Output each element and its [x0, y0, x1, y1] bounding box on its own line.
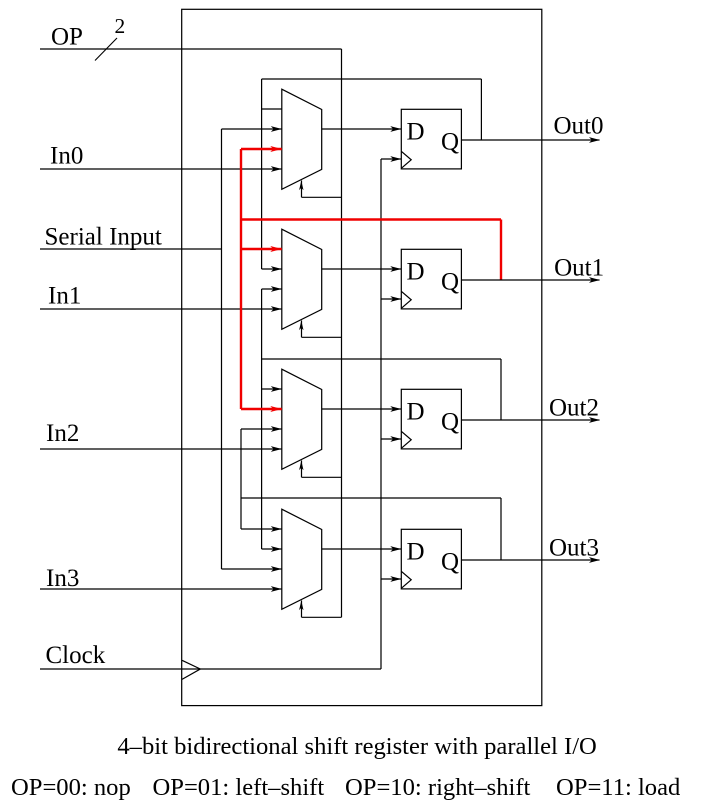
wire Out2 net vertical — [261, 289, 263, 549]
label Q of FF1 — [441, 129, 459, 156]
svg-text:Clock: Clock — [46, 642, 106, 669]
svg-text:OP=11: load: OP=11: load — [556, 774, 680, 801]
mux U2 (4-to-1) — [282, 229, 322, 329]
mux U4 (4-to-1) — [282, 509, 322, 609]
wire clock tap FF3 — [381, 436, 401, 442]
wire Serial Input — [40, 248, 222, 250]
wire mux U3 select — [299, 461, 341, 478]
wire Serial net vertical — [221, 129, 223, 569]
svg-text:Q: Q — [441, 409, 459, 436]
wire In1 input — [40, 306, 282, 312]
wire mux U2 output to D — [322, 266, 402, 272]
svg-text:OP=10: right–shift: OP=10: right–shift — [345, 774, 531, 801]
wire Out1 feedback drop (red) — [500, 220, 502, 281]
svg-text:In1: In1 — [48, 283, 81, 310]
svg-text:D: D — [407, 539, 425, 566]
svg-text:In0: In0 — [50, 143, 83, 170]
wire Out3 feedback drop — [500, 498, 502, 560]
wire OP select bus vertical — [341, 49, 343, 617]
caption OP=11 — [556, 774, 680, 801]
label Q of FF4 — [441, 549, 459, 576]
svg-text:D: D — [407, 119, 425, 146]
label In0 — [50, 143, 83, 170]
caption OP=00 — [11, 774, 131, 801]
wire Out1 feedback horizontal (red) — [241, 218, 501, 220]
label Out1 — [554, 254, 604, 281]
wire OP input — [40, 48, 342, 50]
svg-text:In2: In2 — [46, 420, 79, 447]
caption title — [117, 733, 596, 760]
svg-text:Q: Q — [441, 269, 459, 296]
wire Out0 output — [461, 137, 600, 143]
wire Out2 feedback horizontal — [262, 358, 501, 360]
wire mux U4 output to D — [322, 546, 402, 552]
caption OP=10 — [345, 774, 531, 801]
svg-text:2: 2 — [115, 14, 126, 38]
label D of FF4 — [407, 539, 425, 566]
svg-text:Q: Q — [441, 129, 459, 156]
label D of FF1 — [407, 119, 425, 146]
label OP — [51, 24, 83, 51]
flip-flop FF3 — [401, 389, 461, 449]
wire mux U4 select — [299, 601, 341, 618]
label Out3 — [549, 534, 599, 561]
wire clock tap FF2 — [381, 296, 401, 302]
svg-text:Out3: Out3 — [549, 534, 599, 561]
wire mux U2 select — [299, 321, 341, 338]
wire Out3 output — [461, 557, 600, 563]
wire mux U2 left-shift input stub — [262, 286, 282, 292]
flip-flop FF1 — [401, 109, 461, 169]
wire mux U4 nop input stub — [241, 526, 282, 532]
clock wedge at box edge — [182, 660, 200, 679]
wire Out1 net vertical (red) — [240, 149, 242, 409]
wire clock tap FF4 — [381, 576, 401, 582]
wire mux U1 nop input stub — [262, 108, 282, 110]
wire mux U3 output to D — [322, 406, 402, 412]
svg-text:Q: Q — [441, 549, 459, 576]
wire mux U2 nop input stub (red) — [241, 246, 282, 252]
label D of FF2 — [407, 259, 425, 286]
label Clock — [46, 642, 106, 669]
wire Clock distribution vertical — [380, 159, 382, 669]
wire mux U4 right-shift input stub — [262, 546, 282, 552]
wire mux U1 left-shift input stub (red) — [241, 146, 282, 152]
wire Out3 net vertical — [240, 429, 242, 529]
label In1 — [48, 283, 81, 310]
label Out2 — [549, 394, 599, 421]
label 2 (bus width) — [115, 14, 126, 38]
svg-text:In3: In3 — [46, 565, 79, 592]
label Serial Input — [45, 224, 162, 251]
label In2 — [46, 420, 79, 447]
mux U3 (4-to-1) — [282, 369, 322, 469]
svg-text:OP: OP — [51, 24, 83, 51]
wire In2 input — [40, 446, 282, 452]
wire In3 input — [40, 586, 282, 592]
flip-flop FF2 — [401, 249, 461, 309]
label Out0 — [554, 113, 604, 140]
svg-text:Out2: Out2 — [549, 394, 599, 421]
wire mux U1 right-shift input stub — [222, 126, 282, 132]
svg-text:OP=01: left–shift: OP=01: left–shift — [153, 774, 325, 801]
svg-text:Out1: Out1 — [554, 254, 604, 281]
wire Out3 feedback horizontal — [241, 497, 501, 499]
wire Clock input — [40, 668, 381, 670]
wire mux U3 nop input stub — [262, 386, 282, 392]
wire Out2 feedback drop — [500, 359, 502, 420]
wire Out0 feedback drop — [480, 79, 482, 140]
bus-width slash on OP wire — [95, 38, 117, 61]
wire mux U3 right-shift input stub (red) — [241, 406, 282, 412]
label In3 — [46, 565, 79, 592]
flip-flop FF4 — [401, 529, 461, 589]
wire mux U1 select — [299, 181, 341, 198]
label Q of FF3 — [441, 409, 459, 436]
wire mux U1 output to D — [322, 126, 402, 132]
wire mux U2 right-shift input stub — [262, 266, 282, 272]
wire mux U4 left-shift input stub — [222, 566, 282, 572]
wire mux U3 left-shift input stub — [241, 426, 282, 432]
label Q of FF2 — [441, 269, 459, 296]
mux U1 (4-to-1) — [282, 89, 322, 189]
wire Out1 output — [461, 277, 600, 283]
wire In0 input — [40, 166, 282, 172]
outer box of shift register — [182, 9, 542, 705]
wire clock tap FF1 — [381, 156, 401, 162]
wire Out0 net vertical — [261, 79, 263, 269]
svg-text:D: D — [407, 259, 425, 286]
caption OP=01 — [153, 774, 325, 801]
wire Out2 output — [461, 417, 600, 423]
svg-text:D: D — [407, 399, 425, 426]
svg-text:OP=00: nop: OP=00: nop — [11, 774, 131, 801]
svg-text:4–bit bidirectional shift regi: 4–bit bidirectional shift register with … — [117, 733, 596, 760]
svg-text:Out0: Out0 — [554, 113, 604, 140]
svg-text:Serial Input: Serial Input — [45, 224, 162, 251]
label D of FF3 — [407, 399, 425, 426]
wire Out0 feedback horizontal — [262, 78, 482, 80]
